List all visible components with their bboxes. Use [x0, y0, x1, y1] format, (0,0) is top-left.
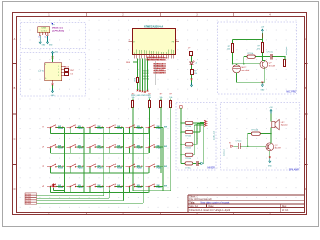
svg-text:SPK AMP: SPK AMP — [289, 169, 300, 172]
svg-text:2: 2 — [43, 33, 44, 35]
svg-text:R? 10k: R? 10k — [185, 158, 191, 160]
svg-text:10k: 10k — [227, 49, 230, 51]
svg-text:PB0 PB1 PB2 PB3 D-: PB0 PB1 PB2 PB3 D- — [147, 60, 167, 62]
svg-text:MIXER: MIXER — [208, 168, 216, 170]
svg-text:PUSH: PUSH — [157, 167, 163, 169]
svg-text:R?: R? — [258, 46, 260, 48]
svg-text:R?: R? — [132, 94, 134, 96]
svg-text:47k: 47k — [257, 48, 260, 50]
svg-text:RES: RES — [126, 62, 131, 64]
svg-text:3: 3 — [45, 33, 46, 35]
svg-text:(+5 V): (+5 V) — [38, 70, 44, 72]
svg-text:audio_out: audio_out — [213, 131, 216, 140]
svg-text:Rev:: Rev: — [282, 206, 287, 208]
svg-text:audio_out: audio_out — [285, 46, 288, 55]
svg-text:1: 1 — [58, 66, 59, 68]
svg-text:D: D — [305, 188, 307, 191]
svg-text:SW: SW — [164, 186, 167, 188]
svg-text:SW: SW — [164, 146, 167, 148]
svg-text:Title:: Title: — [189, 201, 195, 204]
svg-text:SW: SW — [164, 126, 167, 128]
svg-text:1k: 1k — [134, 80, 136, 82]
svg-text:DW-B mini: DW-B mini — [52, 28, 63, 30]
svg-text:BC337: BC337 — [275, 148, 282, 150]
svg-text:C: C — [305, 138, 307, 141]
svg-text:Id: 1/1: Id: 1/1 — [282, 210, 289, 212]
svg-text:C? 10u: C? 10u — [185, 167, 191, 169]
svg-text:SROW4: SROW4 — [142, 78, 149, 80]
svg-text:R? 10k: R? 10k — [185, 126, 191, 128]
svg-text:(J-PR-2016): (J-PR-2016) — [52, 30, 64, 32]
svg-text:Size: A4: Size: A4 — [189, 205, 198, 208]
svg-text:New daisy copier of mozart: New daisy copier of mozart — [201, 201, 230, 204]
svg-text:R? 10k: R? 10k — [185, 148, 191, 150]
svg-text:C? 0.1u: C? 0.1u — [267, 52, 273, 54]
svg-text:JACK: JACK — [64, 66, 70, 69]
svg-text:R? 100k: R? 100k — [252, 130, 259, 132]
svg-text:Speaker: Speaker — [281, 124, 288, 127]
svg-text:ROW4: ROW4 — [25, 203, 32, 205]
svg-text:mic-cond: mic-cond — [242, 70, 250, 72]
svg-text:C? 10u: C? 10u — [236, 141, 242, 143]
svg-text:R? 10k: R? 10k — [248, 53, 254, 55]
svg-text:2: 2 — [58, 69, 59, 71]
svg-text:PUSH: PUSH — [157, 128, 163, 130]
svg-text:audio_in: audio_in — [223, 149, 225, 156]
svg-text:4: 4 — [58, 75, 59, 77]
svg-text:R?: R? — [160, 94, 162, 96]
svg-text:+5: +5 — [195, 62, 197, 64]
svg-text:D: D — [14, 188, 16, 191]
svg-text:R? 10k: R? 10k — [185, 135, 191, 137]
svg-text:R?: R? — [170, 94, 172, 96]
svg-text:USB: USB — [41, 28, 46, 30]
svg-text:3: 3 — [58, 72, 59, 74]
svg-text:MIC PRE: MIC PRE — [286, 92, 296, 94]
svg-text:Date:: Date: — [209, 205, 215, 208]
svg-text:C: C — [14, 138, 16, 141]
svg-text:150: 150 — [194, 73, 197, 75]
svg-text:o: o — [207, 125, 208, 127]
svg-text:D?: D? — [188, 48, 190, 50]
svg-text:R?: R? — [148, 94, 150, 96]
svg-text:PUSH: PUSH — [157, 148, 163, 150]
svg-text:PUSH: PUSH — [157, 187, 163, 189]
svg-text:ATMEGA32U4-A: ATMEGA32U4-A — [144, 26, 163, 29]
svg-text:1 2 3 4: 1 2 3 4 — [41, 30, 47, 32]
svg-text:KiCad E.D.A. kicad 4.0.7+dfsg: KiCad E.D.A. kicad 4.0.7+dfsg1-1~bpo9 — [189, 209, 230, 212]
svg-text:XT: XT — [133, 41, 135, 43]
svg-text:R?: R? — [228, 46, 230, 48]
svg-text:SW: SW — [164, 166, 167, 168]
svg-text:BC548: BC548 — [269, 65, 276, 67]
